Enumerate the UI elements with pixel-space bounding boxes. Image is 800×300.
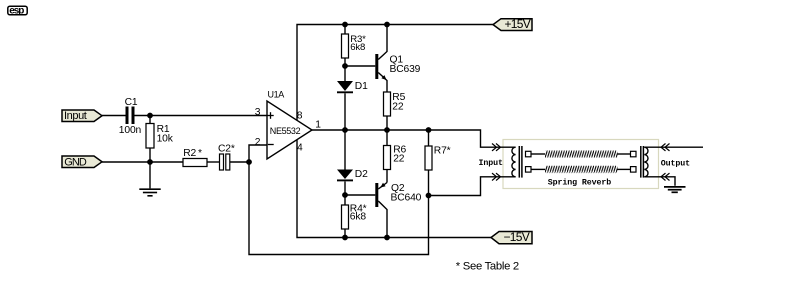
- svg-text:−15V: −15V: [504, 230, 530, 244]
- svg-text:6k8: 6k8: [350, 42, 365, 53]
- svg-text:C1: C1: [125, 97, 138, 108]
- svg-text:Spring Reverb: Spring Reverb: [548, 178, 612, 188]
- svg-text:6k8: 6k8: [350, 212, 367, 223]
- svg-text:22: 22: [393, 154, 405, 165]
- svg-text:4: 4: [297, 143, 303, 154]
- svg-text:NE5532: NE5532: [270, 126, 301, 136]
- svg-text:BC639: BC639: [390, 64, 421, 75]
- svg-text:D2: D2: [355, 169, 368, 180]
- svg-text:10k: 10k: [157, 133, 174, 144]
- svg-text:R7*: R7*: [434, 145, 451, 156]
- svg-text:1: 1: [315, 119, 321, 130]
- svg-text:8: 8: [297, 111, 303, 122]
- svg-text:GND: GND: [64, 157, 87, 169]
- svg-text:R2 *: R2 *: [183, 148, 202, 159]
- svg-text:C2*: C2*: [218, 143, 235, 154]
- svg-text:Output: Output: [661, 159, 690, 168]
- svg-text:BC640: BC640: [391, 192, 422, 203]
- svg-text:+15V: +15V: [505, 17, 531, 31]
- svg-text:22: 22: [392, 102, 404, 113]
- svg-text:2: 2: [255, 137, 261, 148]
- svg-text:D1: D1: [355, 81, 368, 92]
- svg-text:100n: 100n: [119, 125, 142, 136]
- svg-text:* See Table 2: * See Table 2: [456, 260, 519, 272]
- svg-text:Input: Input: [64, 110, 87, 122]
- svg-text:U1A: U1A: [268, 89, 285, 99]
- svg-text:esp: esp: [9, 5, 24, 16]
- svg-text:Input: Input: [479, 159, 504, 168]
- svg-text:3: 3: [255, 107, 261, 118]
